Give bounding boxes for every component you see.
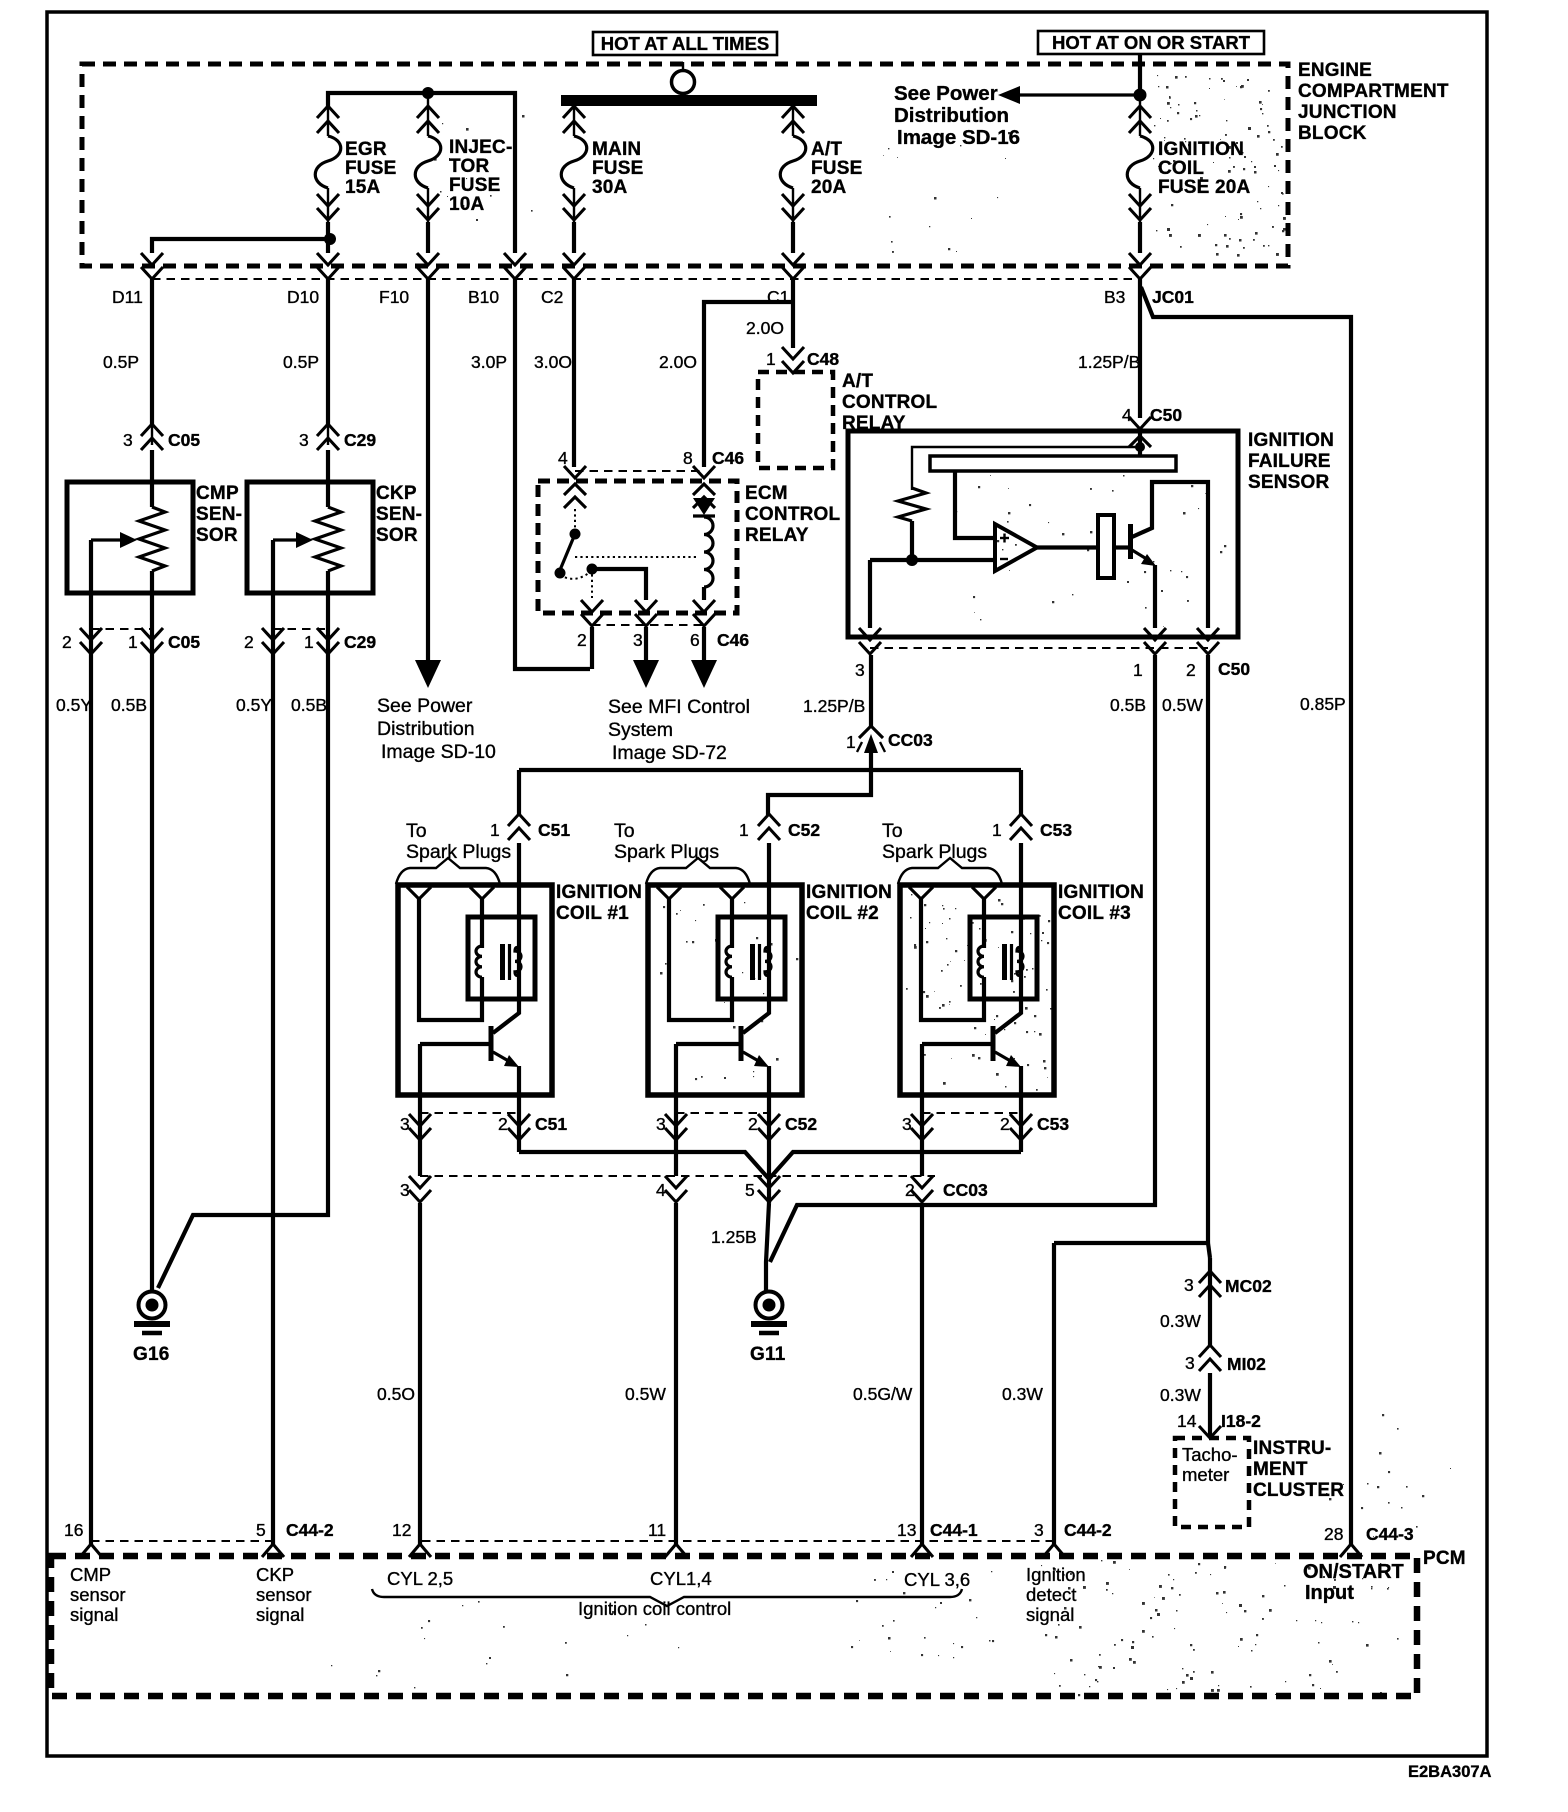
svg-text:ENGINE: ENGINE <box>1298 60 1372 81</box>
wire 1.25P/B to CC03 <box>869 655 873 727</box>
connector 3 MI02 <box>1199 1345 1221 1357</box>
wire 0.5B sensor to G11 <box>770 655 1155 1262</box>
svg-text:C44-2: C44-2 <box>1064 1520 1112 1540</box>
connector 14 I18-2 <box>1199 1426 1221 1438</box>
svg-text:2: 2 <box>1000 1114 1010 1134</box>
svg-text:C05: C05 <box>168 430 200 450</box>
svg-text:C44-1: C44-1 <box>930 1520 978 1540</box>
connector 5 C44-2 <box>262 1544 284 1557</box>
connector 5 CC03 <box>758 1176 780 1188</box>
connector 2 C51 <box>508 1114 530 1126</box>
svg-text:3: 3 <box>656 1114 666 1134</box>
svg-text:IGNITION: IGNITION <box>1158 139 1244 160</box>
svg-text:2: 2 <box>905 1180 915 1200</box>
svg-text:1.25P/B: 1.25P/B <box>803 696 865 716</box>
connector 6 C46 <box>693 600 715 612</box>
connector 3 C44-2 <box>1043 1544 1065 1557</box>
svg-text:COMPARTMENT: COMPARTMENT <box>1298 81 1449 102</box>
svg-text:Spark Plugs: Spark Plugs <box>406 841 511 863</box>
svg-text:20A: 20A <box>811 177 847 198</box>
connector C1 <box>782 253 804 265</box>
svg-text:3: 3 <box>902 1114 912 1134</box>
fuse IGNITION COIL 20A <box>1139 106 1141 136</box>
spark plug terminal 2 <box>470 887 494 899</box>
connector 3 C52 <box>665 1114 687 1126</box>
svg-text:CKP: CKP <box>256 1564 294 1585</box>
svg-text:C50: C50 <box>1218 659 1250 679</box>
svg-text:10A: 10A <box>449 194 485 215</box>
coil transistor #3 <box>991 1026 996 1061</box>
svg-text:0.5Y: 0.5Y <box>56 695 92 715</box>
svg-text:To: To <box>882 820 903 842</box>
transformer windings <box>978 946 984 977</box>
svg-text:1: 1 <box>1133 660 1143 680</box>
svg-text:C29: C29 <box>344 632 376 652</box>
buffer <box>1037 545 1098 549</box>
wire 2.0O C1 branch <box>791 279 795 348</box>
svg-text:IGNITION: IGNITION <box>556 882 642 903</box>
svg-text:0.5W: 0.5W <box>625 1384 666 1404</box>
coil transistor #1 <box>489 1026 494 1061</box>
wire 0.5P D10 to CKP <box>326 279 330 425</box>
svg-text:0.5W: 0.5W <box>1162 695 1203 715</box>
svg-text:CMP: CMP <box>196 483 239 504</box>
svg-text:3.0O: 3.0O <box>534 352 572 372</box>
connector 28 C44-3 <box>1340 1544 1362 1557</box>
primary wire <box>743 885 769 1033</box>
svg-text:E2BA307A: E2BA307A <box>1408 1763 1492 1781</box>
transformer box <box>468 917 535 999</box>
connector C2 <box>563 253 585 265</box>
sensor transistor <box>1114 545 1128 549</box>
svg-text:FUSE: FUSE <box>811 158 862 179</box>
svg-text:FUSE: FUSE <box>345 158 396 179</box>
svg-text:B3: B3 <box>1104 287 1125 307</box>
svg-text:CYL 2,5: CYL 2,5 <box>387 1568 453 1589</box>
connector D10 <box>317 253 339 265</box>
svg-text:28: 28 <box>1324 1524 1343 1544</box>
svg-text:0.5Y: 0.5Y <box>236 695 272 715</box>
svg-text:CMP: CMP <box>70 1564 111 1585</box>
svg-text:1: 1 <box>304 632 314 652</box>
bus bar <box>561 95 817 106</box>
primary wire <box>493 885 519 1033</box>
svg-text:IGNITION: IGNITION <box>1058 882 1144 903</box>
connector 4 C50 <box>1129 417 1151 429</box>
connector 1 C51 <box>517 843 521 885</box>
svg-text:SEN-: SEN- <box>196 504 242 525</box>
svg-text:signal: signal <box>1026 1604 1074 1625</box>
connector 1 C52 <box>767 843 771 885</box>
transformer box <box>718 917 785 999</box>
svg-text:3: 3 <box>1034 1520 1044 1540</box>
svg-text:0.5G/W: 0.5G/W <box>853 1384 913 1404</box>
svg-text:HOT AT ON OR START: HOT AT ON OR START <box>1052 32 1251 53</box>
svg-text:SOR: SOR <box>376 525 418 546</box>
svg-text:To: To <box>406 820 427 842</box>
svg-text:B10: B10 <box>468 287 499 307</box>
svg-text:C44-3: C44-3 <box>1366 1524 1414 1544</box>
svg-text:INJEC-: INJEC- <box>449 137 513 158</box>
svg-text:COIL #1: COIL #1 <box>556 903 629 924</box>
connector 3 MC02 <box>1208 1243 1210 1258</box>
fuse EGR 15A <box>327 106 329 136</box>
transformer windings <box>726 946 732 977</box>
spark plug terminal 1 <box>407 887 431 899</box>
svg-text:I18-2: I18-2 <box>1221 1411 1261 1431</box>
spark plug bracket <box>898 858 1002 884</box>
svg-text:Ignition: Ignition <box>1026 1564 1086 1585</box>
wire to pin3 <box>592 569 646 600</box>
svg-text:1.25P/B: 1.25P/B <box>1078 352 1140 372</box>
svg-text:3.0P: 3.0P <box>471 352 507 372</box>
wire EGR/INJECTOR feed <box>328 93 515 253</box>
transformer windings <box>476 946 482 977</box>
svg-text:SENSOR: SENSOR <box>1248 472 1330 493</box>
svg-text:0.5B: 0.5B <box>1110 695 1146 715</box>
svg-text:11: 11 <box>648 1520 666 1540</box>
CKP wiper arrow <box>273 538 297 541</box>
svg-text:JC01: JC01 <box>1152 287 1194 307</box>
svg-text:2: 2 <box>62 632 72 652</box>
svg-text:1: 1 <box>739 820 749 840</box>
svg-text:C44-2: C44-2 <box>286 1520 334 1540</box>
fuse INJECTOR 10A <box>427 106 429 136</box>
engine compartment junction block box <box>82 64 1288 266</box>
svg-text:EGR: EGR <box>345 139 387 160</box>
relay coil <box>704 517 713 587</box>
shunt bar <box>930 456 1176 471</box>
svg-text:Image SD-16: Image SD-16 <box>897 126 1020 149</box>
primary wire <box>995 885 1021 1033</box>
svg-text:MENT: MENT <box>1253 1459 1308 1480</box>
svg-text:0.85P: 0.85P <box>1300 694 1346 714</box>
svg-text:4: 4 <box>1122 405 1132 425</box>
ignition coil #2 box <box>648 885 802 1095</box>
svg-text:0.5B: 0.5B <box>291 695 327 715</box>
svg-text:C51: C51 <box>538 820 570 840</box>
svg-text:3: 3 <box>633 630 643 650</box>
svg-text:1.25B: 1.25B <box>711 1227 757 1247</box>
svg-text:sensor: sensor <box>70 1584 126 1605</box>
svg-text:CC03: CC03 <box>888 730 933 750</box>
svg-text:Tacho-: Tacho- <box>1182 1444 1238 1465</box>
svg-text:A/T: A/T <box>842 371 873 392</box>
svg-text:8: 8 <box>683 448 693 468</box>
svg-text:1: 1 <box>992 820 1002 840</box>
svg-text:CONTROL: CONTROL <box>745 504 841 525</box>
node to opamp inputs <box>870 558 995 562</box>
svg-text:5: 5 <box>256 1520 266 1540</box>
svg-text:14: 14 <box>1177 1411 1197 1431</box>
svg-text:5: 5 <box>745 1180 755 1200</box>
svg-text:sensor: sensor <box>256 1584 312 1605</box>
connector 3 CC03 <box>409 1176 431 1188</box>
svg-text:MAIN: MAIN <box>592 139 641 160</box>
svg-text:2.0O: 2.0O <box>746 318 784 338</box>
svg-text:Spark Plugs: Spark Plugs <box>614 841 719 863</box>
CMP sensor box <box>67 482 193 593</box>
svg-text:Spark Plugs: Spark Plugs <box>882 841 987 863</box>
svg-text:12: 12 <box>392 1520 411 1540</box>
svg-text:C52: C52 <box>785 1114 817 1134</box>
connector 1 CC03 <box>859 726 883 738</box>
svg-text:COIL #2: COIL #2 <box>806 903 879 924</box>
svg-text:3: 3 <box>400 1114 410 1134</box>
spark plug terminal 2 <box>720 887 744 899</box>
svg-text:6: 6 <box>690 630 700 650</box>
A/T control relay box <box>758 372 833 468</box>
scan noise <box>1153 75 1286 257</box>
connector 3 C05 <box>151 425 153 445</box>
svg-text:FUSE: FUSE <box>592 158 643 179</box>
connector 12 C44-1 <box>409 1544 431 1557</box>
coil output gather wire <box>519 1152 1021 1179</box>
svg-text:D10: D10 <box>287 287 319 307</box>
svg-text:4: 4 <box>656 1180 666 1200</box>
svg-text:ON/START: ON/START <box>1303 1561 1404 1583</box>
svg-text:2: 2 <box>748 1114 758 1134</box>
label HOT AT ON OR START <box>1038 31 1264 54</box>
transformer box <box>970 917 1037 999</box>
svg-text:C29: C29 <box>344 430 376 450</box>
wire 1.25B to G11 <box>766 1203 769 1292</box>
spark plug bracket <box>396 858 500 884</box>
svg-text:JUNCTION: JUNCTION <box>1298 102 1397 123</box>
wire 3.0P B10 <box>515 279 590 669</box>
sense resistor <box>898 488 926 521</box>
wire from HOT AT ON OR START <box>1138 54 1142 95</box>
coil transistor #2 <box>739 1026 744 1061</box>
connector B10 <box>504 253 526 265</box>
spark plug terminal 2 <box>972 887 996 899</box>
connector 3 C50 <box>859 628 881 640</box>
svg-text:0.5P: 0.5P <box>283 352 319 372</box>
svg-text:0.5O: 0.5O <box>377 1384 415 1404</box>
connector 2 C29 <box>262 628 284 640</box>
connector 3 C29 <box>327 425 329 445</box>
svg-text:2: 2 <box>498 1114 508 1134</box>
svg-text:System: System <box>608 719 673 741</box>
PCM box <box>51 1556 1417 1696</box>
svg-text:3: 3 <box>1184 1275 1194 1295</box>
spark plug terminal 1 <box>909 887 933 899</box>
wire 0.5O to PCM 12 <box>418 1203 422 1545</box>
svg-text:C05: C05 <box>168 632 200 652</box>
svg-text:See Power: See Power <box>894 82 998 105</box>
connector 11 C44-1 <box>665 1544 687 1557</box>
ignition coil control brace <box>372 1589 962 1606</box>
C46 row dashed line <box>575 470 704 472</box>
wire 0.5P D11 to CMP <box>150 279 154 425</box>
svg-text:INSTRU-: INSTRU- <box>1253 1438 1331 1459</box>
wire 0.5B CMP to G16 <box>150 655 154 1292</box>
wire 0.5Y CKP to PCM 5 <box>271 655 275 1545</box>
svg-text:3: 3 <box>123 430 133 450</box>
wire 0.5Y CMP to PCM 16 <box>89 655 93 1545</box>
arrow see MFI pin3 <box>644 627 648 662</box>
ground G11 <box>756 1292 783 1319</box>
connector 4 C46 <box>564 466 586 478</box>
svg-text:0.5P: 0.5P <box>103 352 139 372</box>
svg-text:2.0O: 2.0O <box>659 352 697 372</box>
svg-text:SOR: SOR <box>196 525 238 546</box>
svg-text:CC03: CC03 <box>943 1180 988 1200</box>
CMP resistor <box>150 450 154 507</box>
svg-text:3: 3 <box>855 660 865 680</box>
connector 3 C46 <box>635 600 657 612</box>
svg-text:1: 1 <box>128 632 138 652</box>
wire 3.0O C2 to ECM relay <box>572 279 576 467</box>
svg-text:D11: D11 <box>112 287 143 307</box>
relay switch <box>574 509 576 529</box>
svg-text:0.3W: 0.3W <box>1002 1384 1043 1404</box>
wire 0.5W sensor to cluster <box>1206 655 1210 1243</box>
ground G16 <box>139 1292 166 1319</box>
fuse A/T 20A <box>792 106 794 136</box>
connector 1 C50 <box>1144 628 1166 640</box>
svg-text:C46: C46 <box>712 448 744 468</box>
connector 1 C48 <box>782 347 804 359</box>
op-amp U1 <box>995 524 1037 571</box>
svg-text:CYL1,4: CYL1,4 <box>650 1568 712 1589</box>
svg-text:Image SD-72: Image SD-72 <box>612 742 727 764</box>
arrow see MFI pin6 <box>702 627 706 662</box>
connector 2 CC03 <box>911 1176 933 1188</box>
connector 3 C53 <box>911 1114 933 1126</box>
svg-text:MC02: MC02 <box>1225 1276 1272 1296</box>
svg-text:FUSE 20A: FUSE 20A <box>1158 177 1250 198</box>
svg-text:ECM: ECM <box>745 483 788 504</box>
svg-text:30A: 30A <box>592 177 628 198</box>
see power distribution SD-16 arrow <box>1016 93 1140 96</box>
wire to D11/D10 <box>326 222 330 253</box>
svg-text:C2: C2 <box>541 287 563 307</box>
wire 0.5B CKP to G16 <box>158 655 328 1288</box>
svg-text:FAILURE: FAILURE <box>1248 451 1331 472</box>
svg-text:CKP: CKP <box>376 483 417 504</box>
svg-text:3: 3 <box>299 430 309 450</box>
svg-text:CYL 3,6: CYL 3,6 <box>904 1569 970 1590</box>
relay armature link <box>575 556 697 558</box>
svg-text:RELAY: RELAY <box>745 525 809 546</box>
svg-text:C51: C51 <box>535 1114 567 1134</box>
svg-text:C53: C53 <box>1040 820 1072 840</box>
ignition coil #1 box <box>398 885 552 1095</box>
svg-text:IGNITION: IGNITION <box>1248 430 1334 451</box>
svg-text:TOR: TOR <box>449 156 489 177</box>
svg-text:0.3W: 0.3W <box>1160 1385 1201 1405</box>
connector B3 JC01 <box>1129 253 1151 265</box>
ignition coil feed splitter <box>768 752 871 815</box>
svg-text:CONTROL: CONTROL <box>842 392 938 413</box>
svg-text:A/T: A/T <box>811 139 842 160</box>
tachometer box <box>1175 1438 1249 1527</box>
spark plug bracket <box>646 858 750 884</box>
svg-text:3: 3 <box>400 1180 410 1200</box>
svg-text:4: 4 <box>558 448 568 468</box>
svg-text:2: 2 <box>244 632 254 652</box>
svg-text:COIL: COIL <box>1158 158 1204 179</box>
secondary winding loop <box>669 899 732 1020</box>
fuse MAIN 30A <box>573 106 575 136</box>
relay diode <box>703 498 705 509</box>
sensor feed <box>1138 431 1142 456</box>
svg-text:FUSE: FUSE <box>449 175 500 196</box>
svg-text:F10: F10 <box>379 287 409 307</box>
svg-text:HOT AT ALL TIMES: HOT AT ALL TIMES <box>601 33 770 54</box>
svg-text:0.3W: 0.3W <box>1160 1311 1201 1331</box>
connector 1 C29 <box>317 628 339 640</box>
svg-text:Image SD-10: Image SD-10 <box>381 741 496 763</box>
spark plug terminal 1 <box>657 887 681 899</box>
battery terminal <box>682 62 684 71</box>
connector 13 C44-1 <box>911 1544 933 1557</box>
wire 0.5G/W to PCM 13 <box>920 1203 924 1545</box>
svg-text:C52: C52 <box>788 820 820 840</box>
secondary winding loop <box>921 899 984 1020</box>
connector D11 <box>141 253 163 265</box>
connector F10 <box>417 253 439 265</box>
CKP resistor <box>326 450 330 507</box>
svg-text:signal: signal <box>70 1604 118 1625</box>
wire F10 arrow to SD-10 <box>426 279 430 662</box>
secondary winding loop <box>419 899 482 1020</box>
PCM row dashed line <box>91 1540 274 1542</box>
junction <box>422 87 434 99</box>
connector 1 C05 <box>141 628 163 640</box>
connector 2 C53 <box>1010 1114 1032 1126</box>
svg-text:SEN-: SEN- <box>376 504 422 525</box>
connector row dashed line <box>152 278 1140 280</box>
svg-text:Distribution: Distribution <box>377 718 475 740</box>
connector 1 C53 <box>1019 843 1023 885</box>
svg-text:G11: G11 <box>750 1344 786 1365</box>
svg-text:To: To <box>614 820 635 842</box>
CKP sensor box <box>247 482 373 593</box>
svg-text:signal: signal <box>256 1604 304 1625</box>
connector 3 C51 <box>409 1114 431 1126</box>
connector 2 C46 <box>581 600 603 612</box>
ignition coil #3 box <box>900 885 1054 1095</box>
wire 1.25P/B B3 to sensor <box>1138 279 1142 418</box>
svg-text:2: 2 <box>577 630 587 650</box>
wire 0.85P to PCM <box>1141 287 1351 1545</box>
svg-text:1: 1 <box>490 820 500 840</box>
svg-text:IGNITION: IGNITION <box>806 882 892 903</box>
svg-text:Ignition coil control: Ignition coil control <box>578 1598 731 1619</box>
connector 8 C46 <box>693 466 715 478</box>
svg-text:C50: C50 <box>1150 405 1182 425</box>
connector 16 C44-2 <box>80 1544 102 1557</box>
svg-text:13: 13 <box>897 1520 916 1540</box>
svg-text:C48: C48 <box>807 349 839 369</box>
svg-text:1: 1 <box>766 349 776 369</box>
svg-text:C53: C53 <box>1037 1114 1069 1134</box>
svg-text:0.5B: 0.5B <box>111 695 147 715</box>
connector 2 C50 <box>1197 628 1219 640</box>
svg-text:C46: C46 <box>717 630 749 650</box>
wire pin2 to B10 <box>590 627 594 669</box>
svg-text:G16: G16 <box>133 1344 170 1365</box>
svg-text:1: 1 <box>846 732 856 752</box>
svg-text:See Power: See Power <box>377 695 473 717</box>
connector 2 C52 <box>758 1114 780 1126</box>
svg-text:meter: meter <box>1182 1464 1229 1485</box>
svg-text:CLUSTER: CLUSTER <box>1253 1480 1344 1501</box>
svg-text:COIL #3: COIL #3 <box>1058 903 1131 924</box>
connector 4 CC03 <box>665 1176 687 1188</box>
